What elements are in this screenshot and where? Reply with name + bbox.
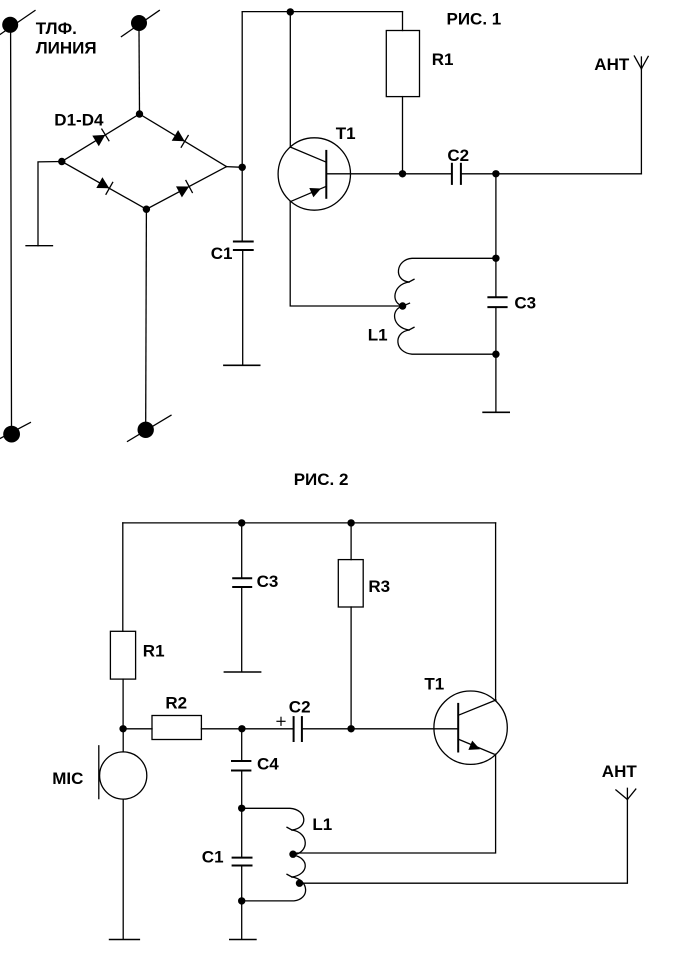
resistor R1 fig1 xyxy=(386,12,419,174)
wire emitter down and right to L1 tap xyxy=(290,202,402,306)
node right junction xyxy=(239,164,246,171)
node R3 top xyxy=(347,519,354,526)
svg-text:АНТ: АНТ xyxy=(594,55,630,74)
node top xyxy=(136,110,143,117)
node bottom xyxy=(143,206,150,213)
diode D4 (lower-right edge) xyxy=(176,181,192,198)
resistor R2 fig2 xyxy=(152,716,201,740)
svg-text:АНТ: АНТ xyxy=(602,762,638,781)
left vertical to R1 xyxy=(122,523,124,631)
capacitor C4 fig2 xyxy=(232,729,250,808)
diode bridge wires xyxy=(62,114,140,162)
capacitor C2 fig2 xyxy=(294,717,302,741)
C3 branch fig2 xyxy=(224,523,260,672)
node C3 branch xyxy=(492,170,499,177)
node R1 bottom xyxy=(399,170,406,177)
wire R2 to C2 xyxy=(201,728,293,730)
capacitor C2 fig1 xyxy=(452,164,461,184)
terminal TLF-A (top-left) xyxy=(0,11,35,35)
node L1 tap xyxy=(399,302,406,309)
label TLF LINIYA xyxy=(36,19,97,58)
svg-text:L1: L1 xyxy=(312,815,332,834)
wire: terminal B down to bridge top xyxy=(138,30,141,114)
capacitor C1 xyxy=(224,242,260,366)
node on rail xyxy=(287,8,294,15)
transistor T1 fig1 (PNP) xyxy=(278,138,350,210)
diode D3 (lower-left edge) xyxy=(96,177,112,194)
svg-text:C1: C1 xyxy=(202,848,224,867)
node L1 bottom junction xyxy=(238,897,245,904)
wire collector up xyxy=(289,12,291,147)
svg-text:R3: R3 xyxy=(368,577,390,596)
top rail fig2 xyxy=(123,522,496,524)
node C4 bottom / L1 top xyxy=(238,805,245,812)
node R1 bottom junction xyxy=(119,725,126,732)
capacitor C3 fig1 xyxy=(483,297,509,412)
wire C2 to antenna xyxy=(461,173,642,175)
svg-text:MIC: MIC xyxy=(52,769,83,788)
node L1 bottom xyxy=(492,351,499,358)
diode D1 (upper-left edge) xyxy=(92,129,109,146)
base wire to T1 fig2 xyxy=(302,728,458,730)
collector wire up xyxy=(495,523,497,700)
svg-text:РИС. 1: РИС. 1 xyxy=(447,10,502,29)
node L1 tap2 (antenna) xyxy=(296,880,303,887)
node L1 tap1 (emitter) xyxy=(289,851,296,858)
svg-text:C3: C3 xyxy=(257,572,279,591)
ground at bridge left xyxy=(26,162,62,246)
node left xyxy=(58,158,65,165)
svg-text:C3: C3 xyxy=(514,293,536,312)
wire: terminal A down to terminal C xyxy=(10,30,13,426)
svg-text:C2: C2 xyxy=(289,697,311,716)
node C4 branch xyxy=(238,725,245,732)
inductor L1 fig1 xyxy=(395,258,496,354)
svg-text:R2: R2 xyxy=(165,694,187,713)
top rail fig1 xyxy=(242,11,402,13)
svg-text:C2: C2 xyxy=(447,146,469,165)
wire to R2 xyxy=(123,728,152,730)
svg-text:C4: C4 xyxy=(257,754,279,773)
terminal TLF-C (bottom-left) xyxy=(0,423,30,443)
antenna fig2 xyxy=(616,788,636,799)
terminal TLF-B (top second) xyxy=(121,10,159,36)
node R3 bottom xyxy=(347,725,354,732)
wire tap2 to antenna xyxy=(300,800,628,884)
svg-text:ЛИНИЯ: ЛИНИЯ xyxy=(36,38,97,57)
terminal TLF-D xyxy=(128,415,172,441)
svg-text:T1: T1 xyxy=(424,675,444,694)
resistor R1 fig2 xyxy=(110,631,135,729)
plus sign xyxy=(277,717,285,725)
node L1 top xyxy=(492,255,499,262)
node C3 top xyxy=(238,519,245,526)
svg-text:R1: R1 xyxy=(143,642,165,661)
svg-text:ТЛФ.: ТЛФ. xyxy=(36,19,77,38)
left vertical wire (C1 branch) xyxy=(241,12,243,242)
transistor T1 fig2 (NPN) xyxy=(434,691,507,764)
C3 branch vertical fig1 xyxy=(495,174,497,297)
inductor L1 fig2 xyxy=(242,808,306,901)
base wire to C2 xyxy=(326,173,452,175)
svg-text:T1: T1 xyxy=(336,124,356,143)
svg-text:R1: R1 xyxy=(432,50,454,69)
svg-text:D1-D4: D1-D4 xyxy=(54,111,104,130)
microphone MIC xyxy=(99,729,147,940)
resistor R3 fig2 xyxy=(338,523,363,729)
antenna fig1 xyxy=(634,56,648,174)
emitter wire down and left xyxy=(293,754,496,853)
diode D2 (upper-right edge) xyxy=(172,130,189,147)
svg-text:C1: C1 xyxy=(211,244,233,263)
wire bridge bottom down to terminal D xyxy=(145,209,148,422)
capacitor C1 fig2 xyxy=(230,808,256,939)
wire bridge right vertex to C1 line xyxy=(227,166,243,169)
svg-text:L1: L1 xyxy=(368,326,388,345)
svg-text:РИС. 2: РИС. 2 xyxy=(294,470,349,489)
